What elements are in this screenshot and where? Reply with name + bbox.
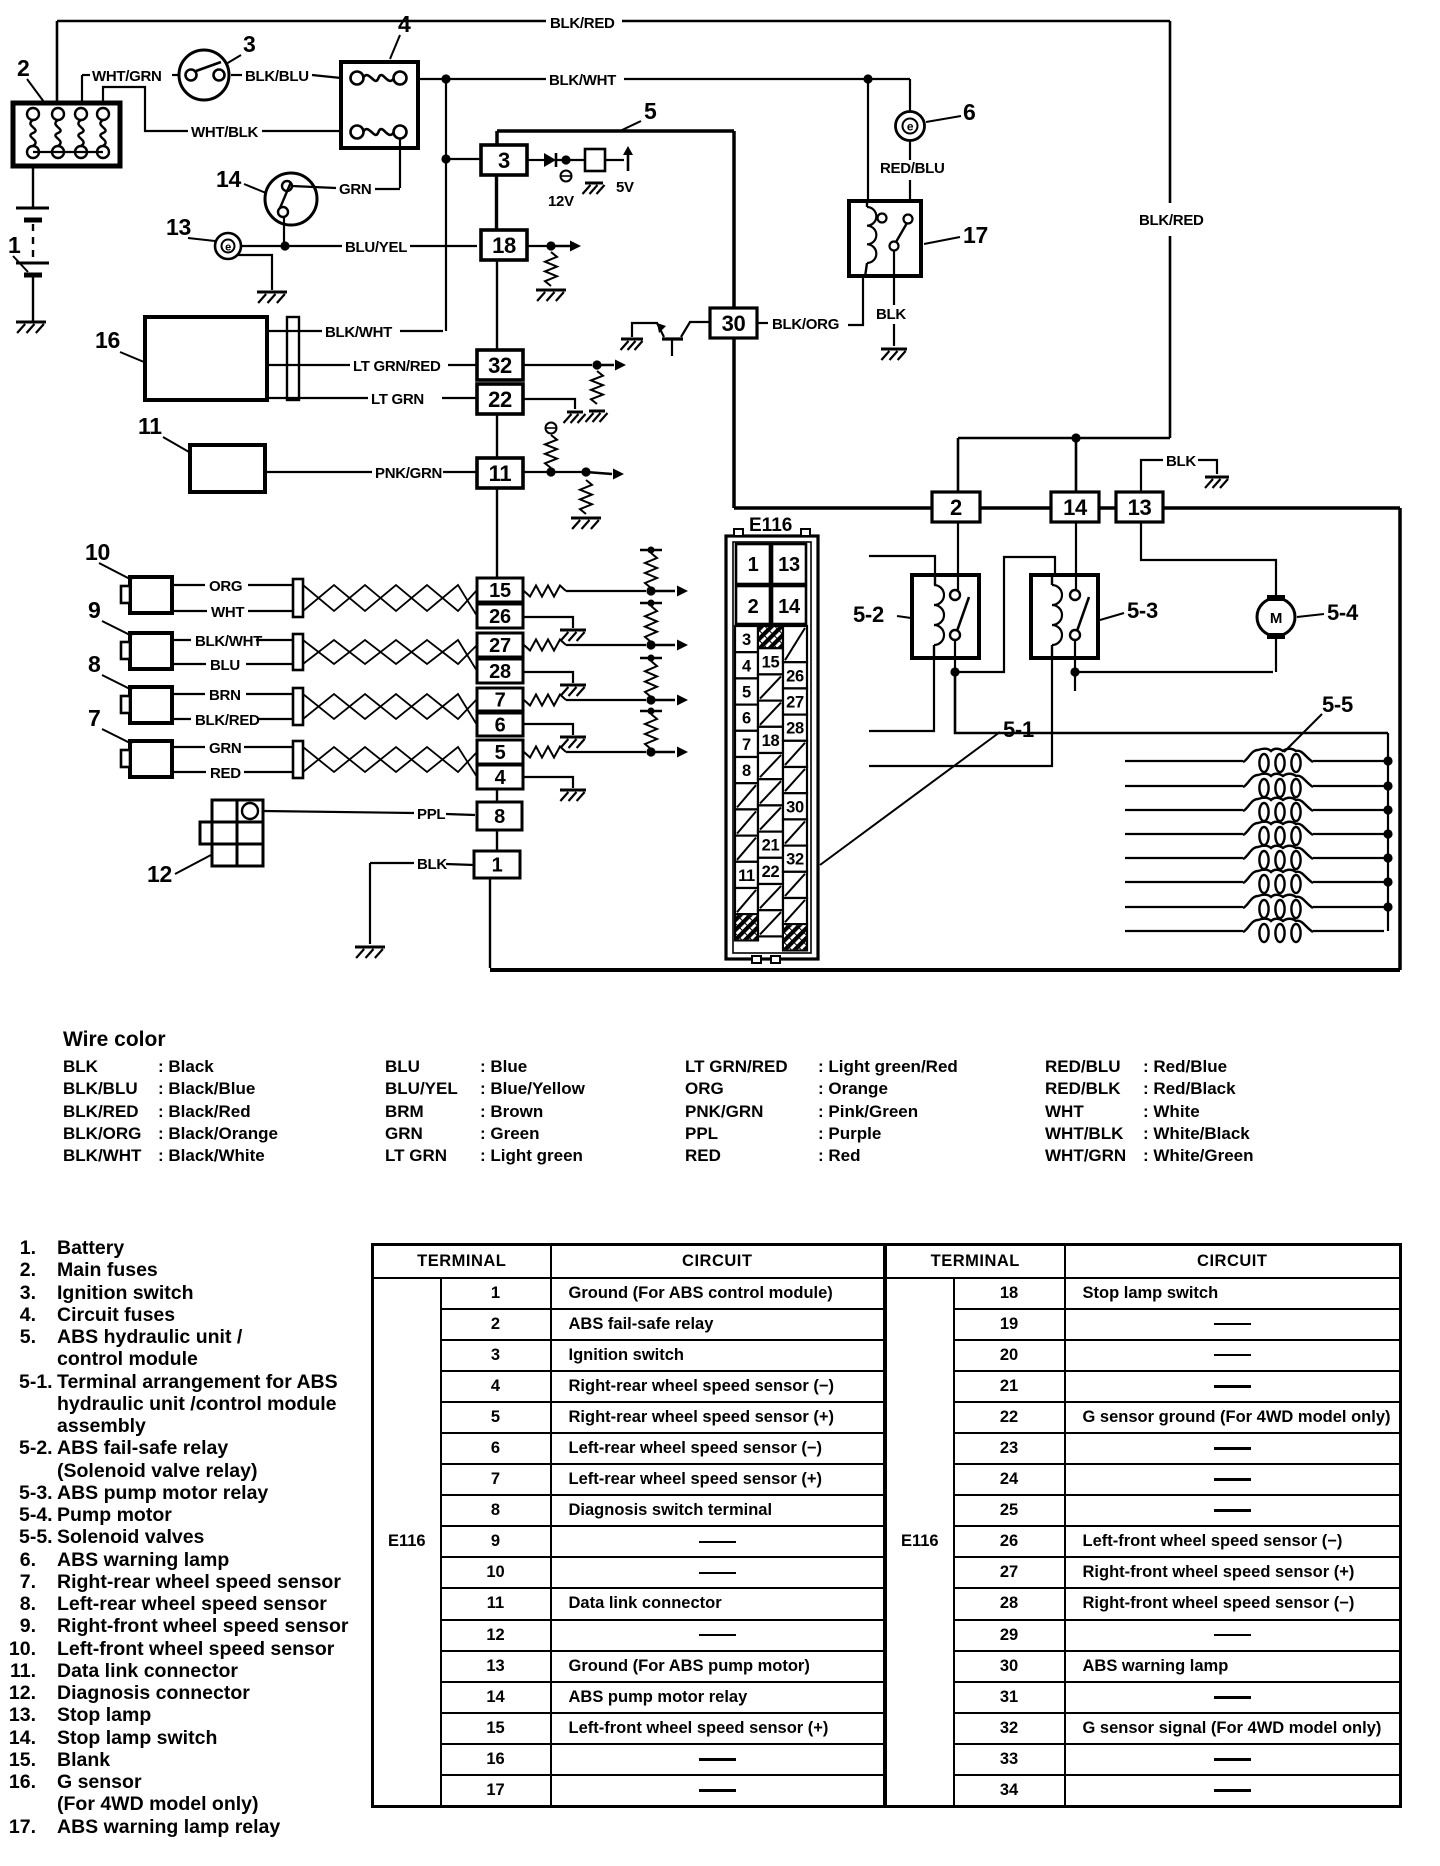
svg-text:26: 26 <box>489 606 511 628</box>
svg-text:11: 11 <box>738 867 755 885</box>
svg-text:BLU: BLU <box>210 657 240 674</box>
svg-text:6: 6 <box>495 715 506 737</box>
svg-text:22: 22 <box>762 863 780 881</box>
svg-text:16: 16 <box>95 327 120 353</box>
svg-text:18: 18 <box>492 233 516 258</box>
svg-text:RED/BLU: RED/BLU <box>880 160 945 177</box>
svg-text:E116: E116 <box>749 515 792 536</box>
svg-text:1: 1 <box>748 554 759 576</box>
svg-text:BLK/RED: BLK/RED <box>1139 212 1204 229</box>
svg-text:7: 7 <box>495 690 506 712</box>
svg-text:5: 5 <box>644 98 657 124</box>
svg-text:27: 27 <box>786 694 804 712</box>
svg-text:BRN: BRN <box>209 687 241 704</box>
svg-text:WHT/BLK: WHT/BLK <box>191 124 259 141</box>
svg-text:5: 5 <box>495 742 506 764</box>
svg-text:BLK/WHT: BLK/WHT <box>195 633 262 650</box>
svg-text:14: 14 <box>216 166 241 192</box>
svg-text:5-5: 5-5 <box>1322 692 1353 717</box>
svg-text:GRN: GRN <box>209 740 241 757</box>
svg-text:30: 30 <box>722 311 746 336</box>
svg-text:M: M <box>1270 610 1282 627</box>
svg-text:12V: 12V <box>548 193 574 210</box>
svg-text:26: 26 <box>786 667 804 685</box>
svg-text:5: 5 <box>742 684 751 702</box>
svg-text:13: 13 <box>1128 495 1152 520</box>
svg-text:10: 10 <box>85 539 110 565</box>
svg-text:9: 9 <box>88 597 101 623</box>
svg-text:e: e <box>225 242 231 254</box>
svg-text:4: 4 <box>398 11 411 37</box>
svg-text:GRN: GRN <box>339 181 371 198</box>
svg-text:7: 7 <box>88 705 101 731</box>
svg-text:LT GRN: LT GRN <box>371 391 424 408</box>
svg-text:BLK/RED: BLK/RED <box>195 712 260 729</box>
svg-text:BLK/WHT: BLK/WHT <box>549 72 616 89</box>
svg-text:14: 14 <box>778 596 801 618</box>
svg-text:BLK/ORG: BLK/ORG <box>772 316 839 333</box>
svg-text:BLK/RED: BLK/RED <box>550 15 615 32</box>
svg-text:5-4: 5-4 <box>1327 600 1359 625</box>
svg-text:22: 22 <box>488 387 512 412</box>
svg-text:BLK: BLK <box>417 856 447 873</box>
svg-text:21: 21 <box>762 837 780 855</box>
svg-text:2: 2 <box>17 55 30 81</box>
svg-text:WHT: WHT <box>211 604 244 621</box>
svg-text:BLK: BLK <box>1166 453 1196 470</box>
svg-text:e: e <box>907 120 914 134</box>
svg-text:BLU/YEL: BLU/YEL <box>345 239 407 256</box>
svg-text:5-3: 5-3 <box>1127 598 1158 623</box>
svg-text:3: 3 <box>742 631 751 649</box>
svg-text:PNK/GRN: PNK/GRN <box>375 465 442 482</box>
svg-text:14: 14 <box>1063 495 1088 520</box>
svg-text:8: 8 <box>742 762 751 780</box>
svg-text:PPL: PPL <box>417 806 445 823</box>
svg-text:6: 6 <box>963 99 976 125</box>
svg-text:5-1: 5-1 <box>1003 717 1034 742</box>
svg-text:5-2: 5-2 <box>853 602 884 627</box>
svg-text:4: 4 <box>742 657 752 675</box>
svg-text:BLK/BLU: BLK/BLU <box>245 68 309 85</box>
svg-text:WHT/GRN: WHT/GRN <box>92 68 162 85</box>
svg-text:2: 2 <box>748 596 759 618</box>
svg-text:8: 8 <box>494 806 505 828</box>
svg-text:LT GRN/RED: LT GRN/RED <box>353 358 441 375</box>
svg-text:27: 27 <box>489 635 511 657</box>
svg-text:15: 15 <box>489 580 511 602</box>
svg-text:3: 3 <box>243 31 256 57</box>
svg-text:2: 2 <box>950 495 962 520</box>
svg-text:5V: 5V <box>616 179 634 196</box>
svg-text:8: 8 <box>88 651 101 677</box>
svg-text:1: 1 <box>8 232 21 258</box>
svg-text:11: 11 <box>489 461 512 486</box>
svg-text:ORG: ORG <box>209 578 242 595</box>
svg-text:12: 12 <box>147 861 172 887</box>
svg-text:BLK: BLK <box>876 306 906 323</box>
svg-text:RED: RED <box>210 765 241 782</box>
svg-text:13: 13 <box>778 554 800 576</box>
svg-text:7: 7 <box>742 736 751 754</box>
svg-text:30: 30 <box>786 798 804 816</box>
svg-text:28: 28 <box>489 661 511 683</box>
svg-text:13: 13 <box>166 214 191 240</box>
svg-text:6: 6 <box>742 710 751 728</box>
svg-text:11: 11 <box>138 413 162 439</box>
svg-text:BLK/WHT: BLK/WHT <box>325 324 392 341</box>
svg-text:18: 18 <box>762 732 780 750</box>
svg-text:15: 15 <box>762 653 780 671</box>
svg-text:1: 1 <box>492 855 503 877</box>
svg-text:32: 32 <box>488 353 512 378</box>
svg-text:17: 17 <box>963 222 988 248</box>
svg-text:3: 3 <box>498 148 510 173</box>
svg-text:32: 32 <box>786 851 804 869</box>
svg-text:4: 4 <box>495 767 507 789</box>
svg-text:28: 28 <box>786 720 804 738</box>
